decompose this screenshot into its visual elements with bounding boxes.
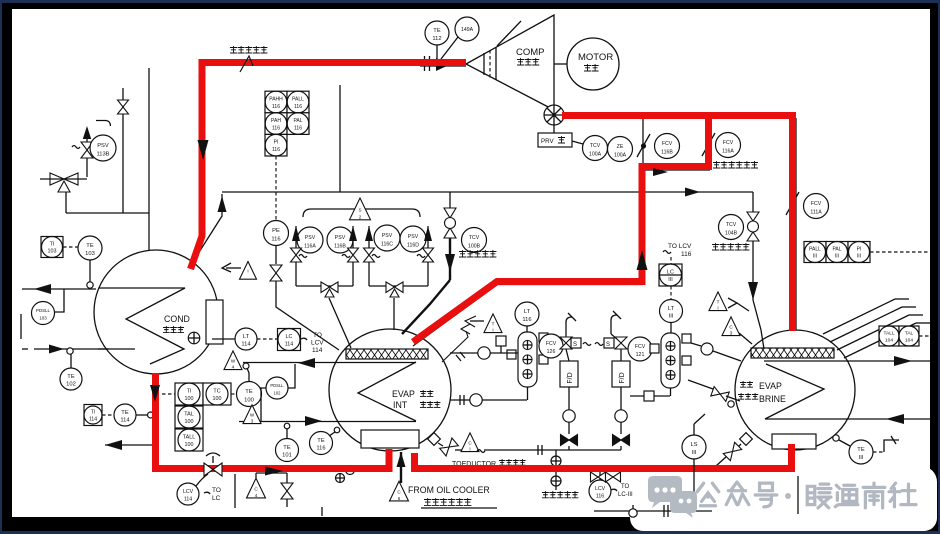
PALL116 [287,91,309,113]
svg-text:III: III [859,455,864,461]
wire tick left [20,314,22,339]
TE101 [276,439,299,462]
svg-text:100: 100 [244,397,254,403]
svg-text:BRINE: BRINE [759,394,786,404]
svg-text:114: 114 [120,417,130,423]
svg-text:III: III [835,254,839,260]
svg-text:EVAP: EVAP [392,389,415,399]
svg-text:TO: TO [212,487,221,494]
svg-text:PRV: PRV [541,138,554,145]
wire PRV link [572,141,583,144]
wire TE103 stem [89,260,91,282]
wire suction pipe top [420,65,466,67]
wire liquid out y445 [105,444,153,446]
svg-text:114: 114 [241,341,251,347]
wire header y213 [66,185,149,213]
triangle T1 brine [709,292,727,311]
svg-text:100A: 100A [589,151,602,157]
svg-text:TO: TO [313,332,322,339]
svg-text:III: III [813,254,817,260]
drain line with vents [551,450,561,490]
PRV rotary valve symbol [544,105,564,125]
TE112 [425,21,449,45]
svg-text:TE: TE [86,243,94,249]
svg-text:101: 101 [282,453,292,459]
arrow to brine [748,282,758,300]
svg-text:T: T [717,300,720,305]
fitting box y340 [496,336,506,353]
wire chilled water out y363 [243,362,416,364]
svg-text:149A: 149A [461,27,474,33]
svg-text:FROM OIL COOLER: FROM OIL COOLER [408,485,490,495]
LT116 [515,302,539,326]
valve FD1 bottom [561,435,578,446]
svg-text:TCV: TCV [590,143,601,149]
triangle C1 [461,433,479,452]
wire TCV104B branch [752,192,754,212]
LCV116 area [589,480,611,502]
bowtie valves on liquid line [591,472,606,482]
svg-text:T: T [492,322,495,327]
wire TE111 links [839,436,899,452]
wire PSV CD to evap [393,298,395,330]
PDSLL103 [32,302,55,325]
wire PE116 down [275,246,277,265]
wire stub x235 [234,474,236,508]
svg-text:TE: TE [121,410,129,416]
arrow hot gas down [445,254,455,272]
arrow interstage right [653,168,668,176]
triangle T1 evap int [484,314,502,333]
hook break 2 [611,311,621,339]
valve under PE116 [270,265,282,281]
diamond fitting evap int [428,433,443,446]
arrow water out [34,284,51,294]
triangle A1 [240,261,257,279]
bracket over PSVs [303,209,420,217]
svg-text:PE: PE [272,228,280,234]
svg-text:100: 100 [185,396,194,402]
svg-text:F/D: F/D [567,372,574,383]
watermark dot separator [785,493,791,499]
wire PSV AB to evap [329,298,351,348]
svg-text:6: 6 [398,496,401,501]
watermark gongzhonghao text [697,482,777,507]
svg-text:LCV: LCV [595,486,606,492]
FROM OIL COOLER label [408,485,490,495]
PRV box [538,125,572,147]
svg-text:113B: 113B [96,152,109,158]
svg-text:PAHH: PAHH [269,97,283,103]
svg-text:PAL: PAL [832,247,841,253]
svg-text:100: 100 [213,396,222,402]
FCV111A [804,194,829,219]
svg-text:PAH: PAH [271,118,281,124]
wire suction line vertical x149 [148,68,150,251]
svg-text:116A: 116A [304,244,316,250]
svg-text:TALL: TALL [883,331,894,337]
squiggle relief seat [72,146,80,149]
LS111 [682,435,706,459]
svg-text:W: W [250,413,255,418]
wire vessel1 bottom [527,387,529,400]
MOTOR chinese label [584,64,599,71]
filter drier 2 [612,349,630,387]
svg-text:FCV: FCV [662,141,673,147]
arrow on red interstage up [637,250,648,270]
wire dash PI116-PE116 [275,156,277,221]
svg-text:PSV: PSV [97,143,109,149]
red liquid line to BRINE [411,444,794,472]
arrow water in y421 [305,416,322,426]
PSV116C [374,225,400,251]
svg-text:S: S [358,208,361,213]
wire dash LC-LT111 [670,286,672,300]
svg-text:LC: LC [286,334,293,340]
svg-text:TE: TE [433,28,441,34]
svg-text:PSV: PSV [382,233,393,239]
arrow PSV relief up 1 [292,226,300,241]
valve X brine feed [711,387,729,402]
svg-text:MOTOR: MOTOR [578,52,613,63]
svg-text:LT: LT [243,334,250,340]
arrow on red suction down [198,140,209,160]
svg-text:TO: TO [621,484,630,490]
wire TCV100B down thick [402,238,450,334]
svg-text:100A: 100A [614,152,627,158]
triangle W3 [243,405,261,424]
brine inlet line [765,418,930,420]
valve FD2 bottom [613,435,630,446]
svg-text:LS: LS [690,442,697,448]
svg-text:TO LCV: TO LCV [668,243,692,250]
wire LT114 left [212,338,235,340]
svg-text:I: I [717,305,718,310]
motor MOTOR [554,38,619,90]
svg-text:III: III [857,254,861,260]
svg-text:PALL: PALL [292,97,304,103]
TO LCV 116 label [668,243,692,258]
relief valve 1 [291,248,302,262]
brine outlet line [764,360,930,362]
wire cooling water in y349 [22,348,109,350]
svg-text:PSV: PSV [335,235,346,241]
TCV100A [583,136,608,161]
wire PDSLL103 link [55,289,64,312]
svg-text:3: 3 [730,330,733,335]
TCV100B bubble [462,228,487,253]
svg-text:F/D: F/D [619,372,626,383]
wire vessel2 bottom link [630,388,671,401]
PAL111 [826,242,848,263]
three-way under PSV AB [321,282,338,297]
arrow header flow [685,188,700,197]
wire vent line x123 [122,88,124,213]
svg-text:102: 102 [274,390,282,395]
svg-text:PAL: PAL [293,118,302,124]
valve on vent line [118,100,129,114]
arrow vent up [83,126,91,139]
regulator valve LCV114 [204,453,222,476]
wire dash LT-LC114 [257,338,277,340]
svg-text:EVAP: EVAP [759,381,782,391]
svg-text:2: 2 [359,215,362,220]
svg-text:III: III [668,277,673,283]
PSV116D [400,226,426,252]
svg-text:I: I [469,446,470,451]
svg-text:116: 116 [272,125,280,131]
svg-text:116: 116 [316,446,325,452]
arrow header riser [218,196,227,212]
COMP chinese label [517,58,539,65]
valve slash FCV111A [786,192,799,215]
lollipop brine feed [728,401,734,407]
LC114 [278,329,301,351]
valve under C4 [281,483,293,499]
evaporator EVAP INT vessel [329,329,451,451]
hot gas bypass label 2 [712,243,749,250]
svg-text:ZE: ZE [617,144,624,150]
wire LT111 stem [670,322,672,333]
svg-text:I: I [247,269,248,274]
solenoid valve 2 [604,337,627,349]
arrow water in [49,345,64,354]
wire pipe under red interstage [413,285,643,347]
svg-text:III: III [669,314,674,320]
control valve TCV100B [444,208,456,238]
wire PSV pair manifold right [369,285,428,287]
suction accumulator vessel 1 [518,332,537,387]
wire TE102 stem [70,354,72,368]
TI100 [175,383,203,405]
control valve TCV104B [747,212,759,241]
svg-text:TE: TE [857,447,865,453]
wire 149A leader [441,37,458,59]
svg-text:PDSLL: PDSLL [270,383,284,388]
svg-text:PSV: PSV [408,234,419,240]
LT111 [660,300,683,323]
svg-text:103: 103 [85,251,95,257]
svg-text:PSV: PSV [305,235,316,241]
hook break 1 [566,313,576,322]
valve X brine drain [716,433,752,466]
wire branch x643 [643,118,710,192]
flange y400 [460,395,464,405]
wire FD1 down [568,387,570,410]
COND chinese label [163,326,184,333]
svg-text:100: 100 [185,442,194,448]
svg-text:TCV: TCV [726,222,737,228]
red interstage branch [413,119,712,342]
open arrow T1 [442,316,484,362]
wire dash TC-TE100 [162,393,237,395]
TE100 [237,382,262,407]
open arrow T1 brine [728,298,749,311]
wechat icon [648,476,697,518]
EVAP INT chinese labels [420,390,433,396]
svg-text:TE: TE [245,389,253,395]
flange eductor [538,445,542,455]
svg-text:103: 103 [48,249,57,255]
watermark nuantongnanshe text [807,483,916,508]
PAHH116 [265,91,287,113]
watermark white box right [798,466,937,531]
arrow liquid out [105,440,122,450]
svg-text:116: 116 [294,125,302,131]
svg-text:104B: 104B [725,230,738,236]
svg-text:116: 116 [272,147,280,153]
svg-text:116: 116 [596,493,604,499]
svg-text:116: 116 [522,317,531,323]
svg-text:126: 126 [547,349,556,355]
svg-text:112: 112 [432,36,441,42]
svg-text:114: 114 [285,341,294,347]
TE116 [310,432,333,455]
wire drain line bottom right [594,459,798,517]
FCV121 [628,337,652,361]
svg-text:LC-III: LC-III [618,492,633,498]
svg-text:TAL: TAL [184,412,194,418]
LCV114 [177,483,199,505]
red suction line [191,63,467,270]
wire TE112 stem [436,45,438,59]
svg-text:TE: TE [317,438,325,444]
svg-text:TI: TI [187,389,192,395]
arrow water out y363 [298,358,315,368]
PI111 [848,242,870,263]
compressor COMP cone [466,15,554,110]
red discharge line [562,112,793,331]
PE116 [264,221,289,246]
svg-text:TC: TC [213,389,220,395]
wire interstage branch x710 [709,118,711,168]
red liquid line from COND [152,373,389,472]
EVAP INT bottom box [361,430,419,448]
filter drier 1 [560,349,578,387]
TE102 [60,368,82,390]
valve slash FCV116A [702,133,715,156]
TALL100 [175,429,203,451]
FCV116B [655,134,680,159]
svg-text:111A: 111A [810,209,822,215]
svg-text:114: 114 [184,496,192,502]
arrow PSV relief up 2 [349,226,357,241]
svg-text:FCV: FCV [723,140,734,146]
svg-text:W: W [231,359,236,364]
svg-text:PI: PI [857,247,862,253]
svg-text:FCV: FCV [546,341,557,347]
open arrow to COND [222,263,241,272]
svg-text:I: I [492,327,493,332]
valve X eductor [440,438,459,456]
suction accumulator vessel 2 [661,333,680,388]
svg-text:114: 114 [89,417,97,423]
TAL104 [899,326,919,346]
PI116 [265,134,287,156]
svg-text:TAL: TAL [905,331,914,337]
wire vessel2 to brine top [691,343,701,346]
svg-text:116D: 116D [407,243,419,249]
svg-text:LCV: LCV [311,340,324,347]
evaporator EVAP BRINE vessel [735,330,855,450]
svg-text:114: 114 [312,347,323,354]
watermark white strip bottom [630,502,937,531]
arrow on red liquid right [265,467,283,476]
svg-text:116B: 116B [334,244,346,250]
svg-text:116: 116 [681,251,692,258]
svg-text:PDSLL: PDSLL [36,308,50,313]
wire vent x340 [339,85,341,192]
wire PDSLL102 links [261,364,295,421]
ZE100A [608,137,633,162]
svg-text:III: III [692,450,697,456]
svg-text:COND: COND [164,314,190,324]
svg-text:116: 116 [294,104,302,110]
wire PE116 to evap [276,281,339,350]
svg-text:116: 116 [272,104,280,110]
TO LCV 114 label [311,332,324,354]
svg-text:4: 4 [255,493,258,498]
PALL111 [804,242,826,263]
brine header risers [823,299,930,358]
svg-text:103: 103 [39,316,47,321]
svg-text:121: 121 [636,352,645,358]
svg-text:FCV: FCV [811,201,822,207]
oil return arrow [400,452,402,483]
PSV116A [297,227,323,253]
svg-text:100: 100 [185,419,194,425]
svg-text:PALL: PALL [809,247,821,253]
wire header riser from COND [196,194,222,257]
wire chilled water in y421 [239,421,416,423]
wire suction header y192 [222,191,753,193]
svg-text:104: 104 [905,337,913,343]
vessel1 fittings [507,333,548,364]
svg-text:4: 4 [232,364,235,369]
svg-text:TI: TI [50,242,55,248]
wire liquid line y353 [450,352,518,354]
drain fittings bottom left [322,466,355,517]
relief valve 4 [423,248,434,262]
svg-text:TI: TI [91,410,95,416]
check valve flag on red [240,56,253,72]
svg-text:TE: TE [283,445,291,451]
svg-text:COMP: COMP [516,47,545,58]
discharge check valve label [230,46,267,53]
COND nozzle box [206,300,223,344]
TC100 [203,383,231,405]
svg-text:PI: PI [274,140,279,146]
wire dash PI111 [870,251,930,253]
svg-text:100B: 100B [468,243,481,249]
PSV113B [90,135,116,161]
svg-text:INT: INT [393,400,408,410]
oil return arrow head [397,452,406,467]
wire PSV pair manifold left [296,285,353,287]
svg-text:S: S [573,342,577,348]
wire TCV104B to brine [753,241,764,349]
svg-text:116A: 116A [722,148,734,154]
relief valve 3 [364,248,375,262]
triangle S2 [350,198,371,220]
wire TCV100B branch [449,192,451,209]
TE103 [78,236,102,260]
check valve near compressor [425,56,451,71]
EVAP BRINE chinese labels [740,381,753,387]
svg-text:LC: LC [212,495,221,502]
arrow PSV relief up 3 [365,226,373,241]
TO LC label [204,487,221,502]
